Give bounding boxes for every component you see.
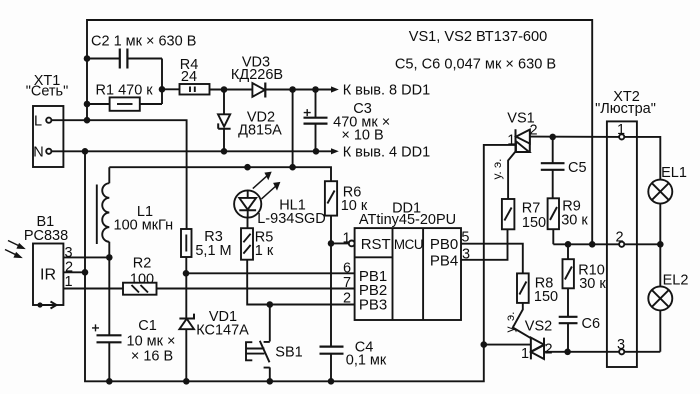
svg-text:К выв. 4 DD1: К выв. 4 DD1 xyxy=(343,145,430,161)
svg-text:1: 1 xyxy=(342,230,350,246)
svg-text:1: 1 xyxy=(617,122,625,138)
svg-text:R2: R2 xyxy=(133,255,152,271)
svg-text:PB4: PB4 xyxy=(430,252,458,269)
svg-text:0,1 мк: 0,1 мк xyxy=(346,352,387,368)
svg-text:1: 1 xyxy=(507,133,515,149)
svg-text:L-934SGD: L-934SGD xyxy=(257,211,326,227)
svg-text:100 мкГн: 100 мкГн xyxy=(114,217,174,233)
svg-text:EL2: EL2 xyxy=(663,272,689,288)
svg-text:Д815А: Д815А xyxy=(238,122,282,138)
svg-text:5: 5 xyxy=(461,229,469,245)
svg-text:3: 3 xyxy=(462,247,470,263)
svg-text:7: 7 xyxy=(343,275,351,291)
svg-text:5,1 М: 5,1 М xyxy=(195,243,231,259)
svg-text:2: 2 xyxy=(544,341,552,357)
svg-text:PB0: PB0 xyxy=(430,236,458,253)
svg-text:RST: RST xyxy=(361,236,391,253)
svg-text:у. э.: у. э. xyxy=(490,159,504,180)
svg-text:С5, С6 0,047 мк × 630 В: С5, С6 0,047 мк × 630 В xyxy=(395,57,556,73)
svg-text:30 к: 30 к xyxy=(561,212,588,228)
svg-text:EL1: EL1 xyxy=(661,165,687,181)
svg-text:C5: C5 xyxy=(568,160,587,176)
svg-text:150: 150 xyxy=(534,289,558,305)
svg-text:КД226В: КД226В xyxy=(231,67,283,83)
svg-text:2: 2 xyxy=(529,122,537,138)
svg-text:× 10 В: × 10 В xyxy=(341,127,383,143)
svg-text:N: N xyxy=(33,145,43,161)
svg-text:24: 24 xyxy=(181,69,197,85)
svg-text:150: 150 xyxy=(522,215,546,231)
svg-text:IR: IR xyxy=(40,267,56,284)
svg-text:К выв. 8 DD1: К выв. 8 DD1 xyxy=(343,83,430,99)
svg-text:VS2: VS2 xyxy=(525,318,552,334)
svg-text:1: 1 xyxy=(64,274,72,290)
svg-text:1 к: 1 к xyxy=(255,243,274,259)
svg-text:VS1, VS2 ВТ137-600: VS1, VS2 ВТ137-600 xyxy=(409,29,548,45)
svg-text:"Люстра": "Люстра" xyxy=(595,101,656,117)
svg-text:C6: C6 xyxy=(582,316,601,332)
svg-text:ATtiny45-20PU: ATtiny45-20PU xyxy=(359,212,456,228)
svg-text:3: 3 xyxy=(617,337,625,353)
svg-text:SB1: SB1 xyxy=(275,345,302,361)
svg-text:C1: C1 xyxy=(138,318,157,334)
svg-text:КС147А: КС147А xyxy=(196,323,249,339)
svg-text:10 мк ×: 10 мк × xyxy=(127,333,176,349)
svg-text:100: 100 xyxy=(130,271,154,287)
svg-text:L: L xyxy=(34,114,42,130)
svg-text:PC838: PC838 xyxy=(24,228,68,244)
svg-text:PB3: PB3 xyxy=(359,297,387,314)
svg-text:C2 1 мк × 630 В: C2 1 мк × 630 В xyxy=(91,33,196,49)
svg-text:2: 2 xyxy=(343,291,351,307)
svg-text:"Сеть": "Сеть" xyxy=(26,83,69,99)
svg-text:× 16 В: × 16 В xyxy=(131,348,173,364)
svg-text:30 к: 30 к xyxy=(579,276,606,292)
svg-text:MCU: MCU xyxy=(394,237,423,252)
svg-text:R1 470 к: R1 470 к xyxy=(96,82,154,98)
svg-text:у. э.: у. э. xyxy=(503,312,517,333)
svg-text:2: 2 xyxy=(615,229,623,245)
svg-text:6: 6 xyxy=(343,260,351,276)
svg-text:1: 1 xyxy=(521,346,529,362)
